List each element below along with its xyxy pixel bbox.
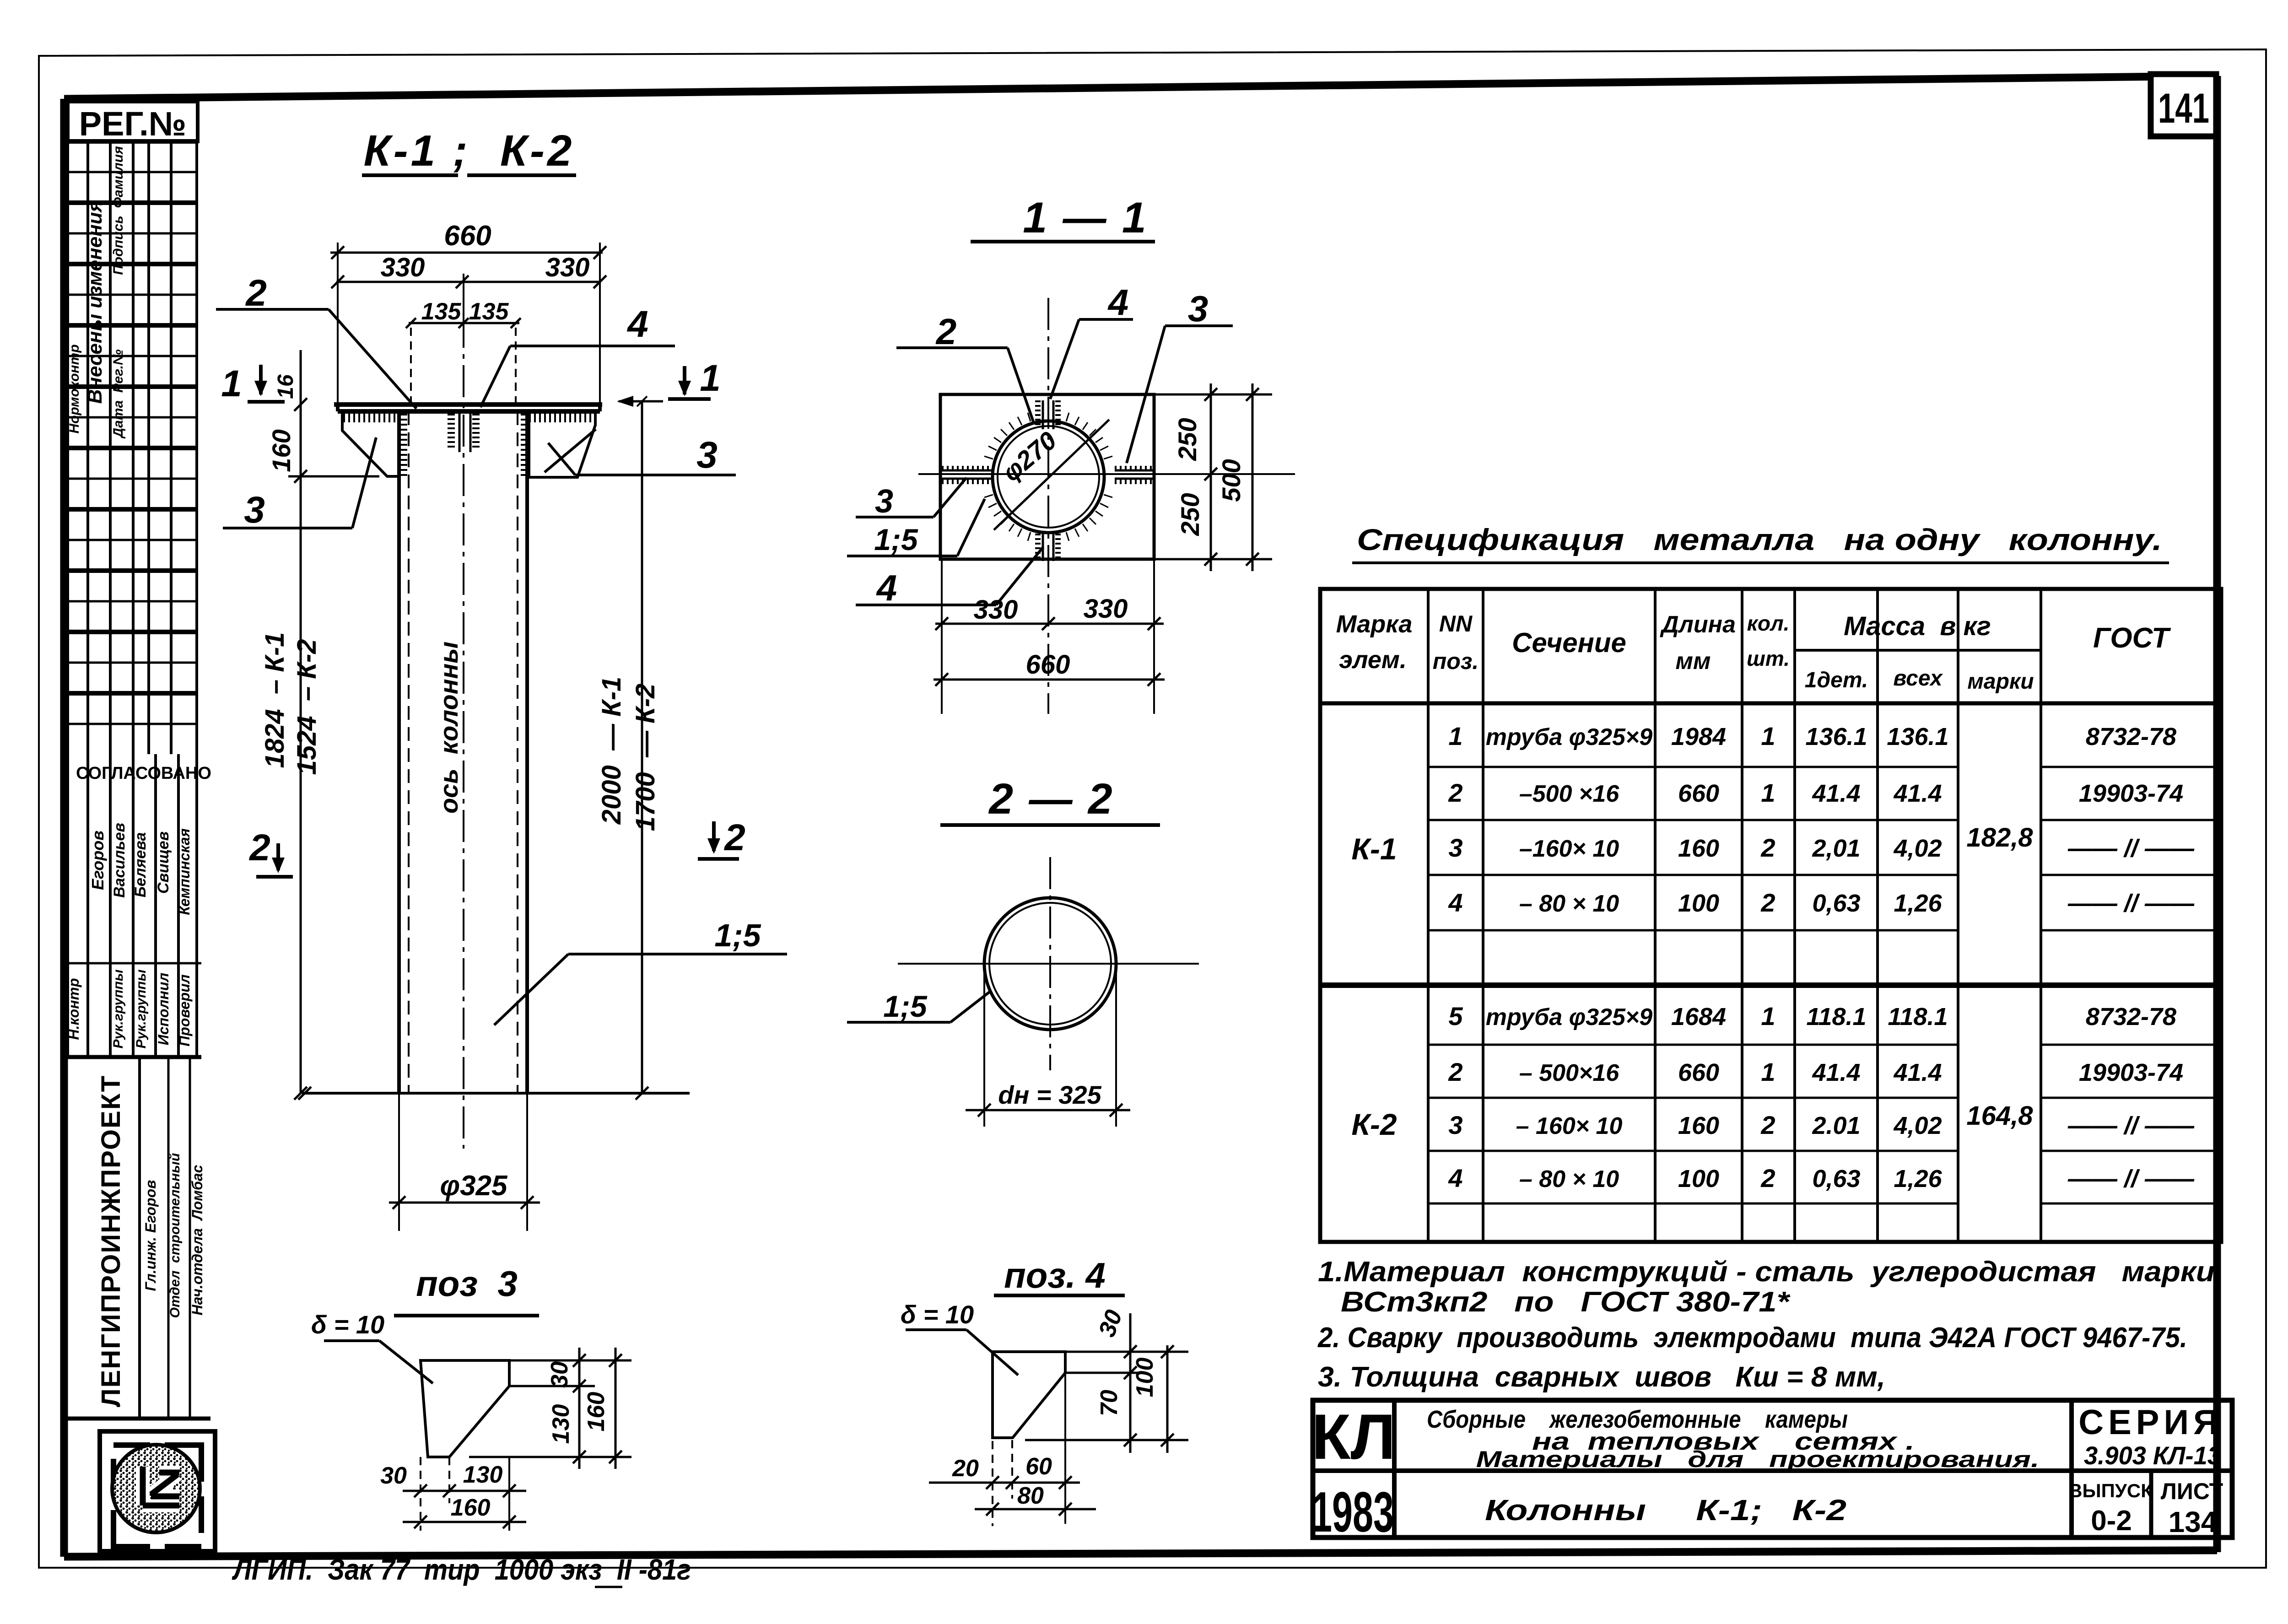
svg-text:41.4: 41.4 [1893, 1059, 1942, 1086]
column base line [302, 1092, 690, 1095]
svg-text:160: 160 [583, 1392, 610, 1432]
svg-text:60: 60 [1025, 1453, 1052, 1480]
svg-text:поз. 4: поз. 4 [1004, 1255, 1106, 1295]
svg-text:Проверил: Проверил [176, 974, 193, 1047]
weld ticks on centre gusset [448, 415, 455, 447]
svg-text:Колонны К-1; К-2: Колонны К-1; К-2 [1485, 1494, 1846, 1527]
svg-text:1;5: 1;5 [714, 917, 761, 953]
svg-text:2.01: 2.01 [1812, 1112, 1860, 1139]
svg-text:Свищев: Свищев [155, 831, 172, 894]
bottom dims 330/330/660 [941, 559, 943, 714]
svg-text:Внесены изменения: Внесены изменения [84, 200, 106, 404]
svg-text:РЕГ.№: РЕГ.№ [79, 105, 186, 143]
svg-text:2 — 2: 2 — 2 [988, 775, 1114, 823]
tube inner walls (dashed) [408, 411, 410, 1093]
svg-text:2: 2 [1448, 1057, 1462, 1086]
svg-text:118.1: 118.1 [1888, 1003, 1948, 1031]
underline under print copy number [595, 1586, 622, 1588]
diameter leader φ270 [994, 420, 1109, 530]
svg-text:1824 – К-1: 1824 – К-1 [260, 632, 290, 768]
svg-text:1: 1 [1761, 722, 1775, 750]
svg-text:—— // ——: —— // —— [2067, 890, 2195, 917]
svg-text:1983: 1983 [1311, 1481, 1394, 1544]
svg-text:3: 3 [244, 489, 265, 531]
svg-text:NN: NN [1439, 611, 1473, 637]
svg-text:– 500×16: – 500×16 [1519, 1060, 1619, 1086]
sheet number box 141 [2151, 74, 2216, 136]
svg-text:4: 4 [626, 303, 648, 345]
svg-text:4,02: 4,02 [1893, 835, 1942, 862]
svg-text:135: 135 [469, 298, 509, 325]
svg-text:141: 141 [2158, 85, 2209, 132]
header lines [1320, 701, 2221, 706]
svg-text:Длина: Длина [1660, 611, 1736, 638]
svg-text:– 160× 10: – 160× 10 [1516, 1113, 1623, 1139]
svg-text:30: 30 [546, 1361, 573, 1388]
dim φ325 [398, 1093, 400, 1231]
svg-text:Кемпинская: Кемпинская [176, 828, 193, 915]
svg-text:136.1: 136.1 [1805, 723, 1867, 750]
svg-text:1;5: 1;5 [874, 523, 918, 556]
svg-text:3: 3 [875, 483, 893, 520]
svg-text:К-1 ; К-2: К-1 ; К-2 [364, 126, 575, 175]
svg-text:2: 2 [1760, 833, 1775, 862]
tube circle [984, 898, 1116, 1030]
svg-text:70: 70 [1096, 1390, 1122, 1416]
weld ticks along tube walls [400, 415, 407, 475]
svg-text:ГОСТ: ГОСТ [2093, 622, 2171, 654]
right dim line 2000 [641, 401, 643, 1093]
gusset поз.4 bottom (edge) [1042, 534, 1044, 561]
svg-text:118.1: 118.1 [1806, 1003, 1866, 1031]
svg-text:марки: марки [1967, 669, 2034, 694]
svg-text:500: 500 [1217, 459, 1246, 502]
svg-text:φ325: φ325 [440, 1170, 508, 1202]
svg-text:Нормоконтр: Нормоконтр [67, 344, 82, 433]
svg-text:– 80 × 10: – 80 × 10 [1519, 890, 1619, 917]
svg-text:1: 1 [1761, 1002, 1775, 1031]
svg-text:1984: 1984 [1671, 723, 1726, 750]
logo emblem [143, 1467, 179, 1505]
svg-text:ось колонны: ось колонны [434, 642, 463, 814]
svg-text:Н.контр: Н.контр [65, 978, 82, 1040]
svg-text:1: 1 [700, 357, 721, 399]
svg-text:2: 2 [723, 817, 745, 858]
svg-text:660: 660 [1678, 1059, 1719, 1086]
svg-text:СЕРИЯ: СЕРИЯ [2078, 1403, 2223, 1442]
svg-text:Марка: Марка [1336, 610, 1413, 638]
svg-text:Беляева: Беляева [132, 832, 149, 897]
dim 330 330 [336, 281, 600, 283]
svg-text:3: 3 [1448, 833, 1462, 862]
svg-text:136.1: 136.1 [1887, 723, 1948, 750]
gusset поз4 outline [993, 1352, 1065, 1438]
svg-text:1524 – К-2: 1524 – К-2 [292, 639, 322, 775]
svg-text:2: 2 [1448, 778, 1462, 807]
svg-text:Рук.группы: Рук.группы [111, 969, 126, 1048]
weld ring ticks [984, 413, 1112, 541]
dim 135 135 [409, 322, 519, 324]
row lines K-1 [1428, 766, 1958, 768]
svg-text:—— // ——: —— // —— [2067, 1165, 2195, 1192]
column tube right wall [525, 411, 529, 1093]
inner thick drawing frame [64, 76, 2217, 99]
svg-text:2,01: 2,01 [1812, 835, 1860, 862]
svg-text:1: 1 [1761, 778, 1775, 807]
gusset поз.4 top (edge) [1042, 400, 1044, 429]
svg-text:ВСт3кп2 по ГОСТ 380-71*: ВСт3кп2 по ГОСТ 380-71* [1341, 1286, 1791, 1318]
spec table frame [1320, 589, 2221, 1242]
svg-text:16: 16 [274, 374, 298, 399]
svg-text:3: 3 [1188, 288, 1209, 329]
svg-text:330: 330 [545, 253, 590, 282]
svg-text:К-2: К-2 [1351, 1107, 1397, 1141]
extension lines [1065, 1351, 1188, 1353]
svg-text:Рук.группы: Рук.группы [134, 969, 149, 1048]
svg-text:δ = 10: δ = 10 [901, 1300, 974, 1329]
svg-text:1: 1 [1448, 722, 1462, 750]
svg-text:1: 1 [221, 363, 242, 405]
svg-text:3: 3 [696, 434, 718, 476]
svg-text:Васильев: Васильев [111, 823, 128, 898]
svg-text:4: 4 [1107, 282, 1129, 323]
svg-text:—— // ——: —— // —— [2067, 1112, 2195, 1139]
svg-text:Дата Рег.№: Дата Рег.№ [111, 349, 126, 439]
right dims 30/130/160 [578, 1348, 581, 1469]
svg-text:20: 20 [952, 1455, 979, 1482]
gusset поз.3 right (edge) [1115, 469, 1154, 472]
svg-text:2: 2 [935, 311, 957, 352]
svg-text:8732-78: 8732-78 [2086, 1003, 2176, 1031]
gusset поз.3 right [529, 412, 595, 477]
tube section circle [993, 421, 1104, 533]
svg-text:Материалы для проектирован: Материалы для проектирования. [1476, 1446, 2040, 1472]
svg-text:4: 4 [1448, 888, 1462, 917]
bottom dims 20/60/80 [992, 1441, 993, 1526]
svg-text:4: 4 [1448, 1164, 1462, 1192]
right dims 30/70/100 [1129, 1313, 1132, 1453]
svg-text:1700 — К-2: 1700 — К-2 [631, 684, 660, 831]
svg-text:Исполнил: Исполнил [155, 973, 172, 1046]
svg-text:КЛ: КЛ [1311, 1401, 1396, 1473]
svg-text:1;5: 1;5 [883, 989, 928, 1023]
svg-text:2: 2 [1760, 888, 1775, 917]
column axis [463, 316, 464, 1149]
svg-text:1: 1 [1761, 1057, 1775, 1086]
svg-text:135: 135 [421, 298, 462, 325]
svg-text:8732-78: 8732-78 [2086, 723, 2176, 750]
svg-text:5: 5 [1448, 1002, 1463, 1031]
svg-text:поз 3: поз 3 [416, 1263, 518, 1304]
svg-text:660: 660 [1678, 780, 1719, 807]
svg-text:труба φ325×9: труба φ325×9 [1486, 724, 1652, 750]
centre lines [1047, 298, 1049, 714]
svg-text:1,26: 1,26 [1894, 1165, 1942, 1192]
svg-text:1дет.: 1дет. [1805, 668, 1868, 692]
svg-text:2: 2 [1760, 1164, 1775, 1192]
svg-text:130: 130 [548, 1404, 574, 1444]
gusset поз.4 (edge view, centre) [459, 411, 461, 452]
svg-text:41.4: 41.4 [1812, 780, 1860, 807]
left dim line 160 / 1824 [300, 350, 302, 1093]
institute name block [68, 1417, 210, 1421]
svg-text:80: 80 [1017, 1483, 1044, 1509]
institute logo [100, 1431, 215, 1551]
svg-text:всех: всех [1893, 666, 1943, 691]
svg-text:160: 160 [451, 1495, 491, 1521]
svg-text:труба φ325×9: труба φ325×9 [1486, 1004, 1652, 1031]
svg-text:19903-74: 19903-74 [2079, 780, 2183, 807]
svg-text:4: 4 [876, 567, 897, 608]
svg-text:ЛГИП. Зак 77 тир 1000 экз: ЛГИП. Зак 77 тир 1000 экз II -81г [232, 1553, 691, 1586]
gusset поз.3 left (edge) [942, 469, 994, 472]
svg-text:1 — 1: 1 — 1 [1023, 194, 1148, 242]
svg-text:250: 250 [1176, 493, 1204, 536]
column tube (поз.1) left wall [397, 411, 401, 1093]
dim 660 (top) [330, 252, 603, 254]
svg-text:– 80 × 10: – 80 × 10 [1519, 1166, 1619, 1192]
bottom dims 30/130/160 [420, 1457, 421, 1531]
svg-text:330: 330 [1084, 594, 1128, 624]
svg-text:Гл.инж. Егоров: Гл.инж. Егоров [142, 1180, 159, 1291]
svg-text:182,8: 182,8 [1966, 823, 2033, 852]
title block [1313, 1400, 2232, 1538]
svg-text:dн = 325: dн = 325 [998, 1080, 1101, 1109]
svg-text:1,26: 1,26 [1894, 890, 1942, 917]
base plate (поз.2) [334, 402, 602, 407]
svg-text:2: 2 [248, 827, 270, 869]
svg-text:3: 3 [1448, 1111, 1462, 1139]
svg-text:Сечение: Сечение [1512, 627, 1626, 658]
svg-text:Подпись Фамилия: Подпись Фамилия [111, 146, 126, 275]
dim extension lines top [337, 243, 339, 405]
svg-text:шт.: шт. [1747, 647, 1790, 670]
svg-text:41.4: 41.4 [1893, 780, 1942, 807]
svg-text:кол.: кол. [1747, 611, 1790, 635]
svg-text:ЛЕНГИПРОИНЖПРОЕКТ: ЛЕНГИПРОИНЖПРОЕКТ [96, 1075, 126, 1407]
svg-text:100: 100 [1678, 1165, 1719, 1192]
svg-text:100: 100 [1132, 1358, 1158, 1397]
svg-text:Егоров: Егоров [88, 831, 107, 890]
svg-text:160: 160 [1678, 835, 1719, 862]
svg-text:250: 250 [1173, 418, 1202, 461]
svg-text:2: 2 [1760, 1111, 1775, 1139]
svg-text:Нач.отдела Ломбас: Нач.отдела Ломбас [189, 1165, 205, 1315]
group separator [1320, 982, 2221, 988]
plate outline in plan [940, 394, 1154, 559]
svg-text:0,63: 0,63 [1812, 890, 1860, 917]
row lines K-2 [1428, 1044, 1958, 1046]
svg-text:0-2: 0-2 [2091, 1505, 2132, 1537]
gusset поз.3 left [342, 412, 399, 476]
svg-text:2: 2 [245, 272, 267, 314]
svg-text:–160× 10: –160× 10 [1519, 836, 1619, 862]
svg-text:134: 134 [2169, 1505, 2218, 1538]
svg-text:–500 ×16: –500 ×16 [1519, 781, 1619, 807]
svg-text:3. Толщина сварных швов Кш: 3. Толщина сварных швов Кш = 8 мм, [1318, 1361, 1885, 1393]
svg-text:ЛИСТ: ЛИСТ [2161, 1478, 2223, 1504]
svg-text:δ = 10: δ = 10 [311, 1310, 384, 1339]
svg-text:2000 — К-1: 2000 — К-1 [597, 677, 626, 825]
svg-text:19903-74: 19903-74 [2079, 1059, 2183, 1086]
svg-text:1.Материал конструкций - стал: 1.Материал конструкций - сталь углеродис… [1318, 1256, 2215, 1288]
svg-text:Спецификация металла на од: Спецификация металла на одну колонну. [1357, 523, 2162, 556]
svg-text:—— // ——: —— // —— [2067, 835, 2195, 862]
svg-text:СОГЛАСОВАНО: СОГЛАСОВАНО [76, 764, 211, 783]
svg-text:4,02: 4,02 [1893, 1112, 1942, 1139]
svg-text:Отдел строительный: Отдел строительный [167, 1153, 183, 1318]
centre lines [1049, 857, 1051, 1070]
svg-text:поз.: поз. [1433, 648, 1479, 674]
svg-text:330: 330 [974, 595, 1018, 625]
svg-text:Масса в кг: Масса в кг [1844, 611, 1991, 641]
right dims 250/250/500 [1154, 394, 1272, 396]
svg-text:2. Сварку производить электр: 2. Сварку производить электродами типа Э… [1317, 1322, 2187, 1354]
gusset поз3 outline [421, 1360, 509, 1457]
svg-text:элем.: элем. [1339, 646, 1407, 674]
svg-text:130: 130 [463, 1462, 503, 1488]
svg-text:160: 160 [1678, 1112, 1719, 1139]
svg-text:мм: мм [1676, 648, 1711, 674]
svg-text:0,63: 0,63 [1812, 1165, 1860, 1192]
svg-text:100: 100 [1678, 890, 1719, 917]
svg-text:330: 330 [381, 253, 425, 282]
svg-text:К-1: К-1 [1351, 832, 1397, 866]
extension lines [509, 1385, 595, 1387]
svg-text:ВЫПУСК: ВЫПУСК [2068, 1480, 2153, 1501]
weld ticks under plate [344, 413, 394, 422]
signature block [66, 754, 69, 1057]
svg-text:660: 660 [1026, 650, 1070, 680]
registration table [68, 102, 198, 141]
svg-text:3.903 КЛ-13: 3.903 КЛ-13 [2084, 1441, 2221, 1470]
svg-text:41.4: 41.4 [1812, 1059, 1860, 1086]
svg-text:30: 30 [380, 1462, 407, 1489]
svg-text:1684: 1684 [1671, 1003, 1726, 1031]
svg-text:160: 160 [267, 429, 296, 472]
svg-text:164,8: 164,8 [1966, 1101, 2033, 1131]
svg-text:660: 660 [444, 220, 491, 252]
